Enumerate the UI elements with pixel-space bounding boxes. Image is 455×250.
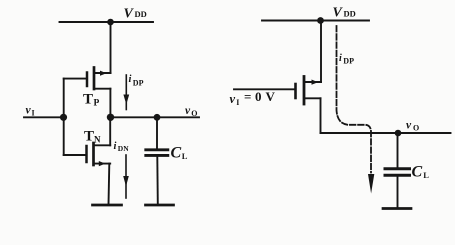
bottom plate (385, 174, 410, 177)
svg-text:=: = (244, 89, 251, 104)
svg-text:V: V (333, 6, 344, 21)
wire VDD rail (right circuit) (262, 20, 369, 22)
wire input line v_I (left) (24, 116, 64, 118)
wire output node to NMOS drain (109, 117, 111, 145)
svg-text:P: P (94, 99, 100, 109)
bottom plate (146, 154, 168, 157)
svg-text:i: i (129, 74, 132, 85)
drain lead (94, 144, 111, 146)
svg-text:T: T (84, 129, 94, 145)
capacitor C_L (left circuit) (146, 117, 168, 204)
label C_L (right) (412, 164, 430, 181)
ground (right, capacitor) (383, 207, 411, 210)
wire VDD rail (left circuit) (60, 21, 154, 23)
label T_N (84, 129, 101, 145)
svg-text:DP: DP (343, 57, 354, 66)
wire dashed current path i_DP (right) (337, 26, 372, 173)
svg-text:O: O (413, 123, 419, 132)
wire output line v_O (right) (321, 132, 451, 134)
svg-text:v: v (185, 105, 191, 117)
svg-text:C: C (171, 145, 182, 162)
label V_DD (right circuit) (333, 6, 356, 21)
node VDD junction dot (right circuit) (317, 17, 324, 24)
svg-text:V: V (124, 7, 135, 22)
gate plate (85, 146, 88, 162)
svg-text:N: N (94, 135, 101, 145)
svg-text:v: v (230, 92, 236, 106)
label i_DN (left) (114, 141, 130, 153)
source arrowhead (312, 80, 319, 85)
source lead (94, 163, 111, 165)
wire PMOS drain to output node (left) (109, 89, 111, 118)
top lead (156, 117, 158, 148)
label T_P (83, 92, 100, 109)
source arrowhead (99, 161, 106, 166)
node capacitor junction dot (left) (154, 114, 161, 121)
svg-text:C: C (412, 164, 423, 181)
svg-text:i: i (339, 53, 342, 64)
svg-text:i: i (114, 141, 117, 152)
bottom lead (156, 157, 159, 205)
current arrow i_DN (left) (123, 155, 129, 198)
ground (left, capacitor) (146, 204, 174, 207)
svg-text:O: O (191, 109, 197, 118)
channel line (93, 68, 96, 90)
drain lead (94, 88, 110, 90)
channel line (303, 77, 306, 105)
top lead (397, 133, 399, 167)
svg-text:I: I (32, 109, 35, 118)
node output junction dot (left) (107, 114, 114, 121)
wire PMOS gate lead (64, 78, 87, 80)
svg-text:v: v (406, 119, 412, 131)
label C_L (left) (171, 145, 188, 162)
gate plate (294, 84, 297, 98)
gate plate (86, 73, 89, 87)
label v_O (left) (185, 105, 198, 118)
wire output line to v_O (left) (111, 116, 200, 118)
wire gate stem (left, connects both gates) (63, 79, 65, 155)
svg-text:DD: DD (344, 9, 356, 19)
top plate (385, 167, 410, 170)
source arrowhead (100, 71, 107, 76)
wire PMOS drain to output line (right) (320, 98, 322, 133)
node output junction dot (right) (395, 130, 402, 137)
label V_DD (left circuit) (124, 7, 147, 22)
top plate (146, 148, 168, 151)
svg-text:DN: DN (118, 144, 129, 153)
svg-text:I: I (236, 98, 239, 107)
svg-text:T: T (83, 92, 93, 108)
node VDD junction dot (left circuit) (107, 19, 114, 26)
label v_I (26, 105, 35, 118)
bottom lead (397, 177, 399, 207)
wire NMOS source to ground (108, 164, 111, 205)
arrowhead of dashed current path (368, 174, 374, 194)
label i_DP (right) (339, 53, 354, 66)
current arrow i_DP (left) (123, 75, 129, 110)
svg-text:L: L (182, 151, 188, 161)
transistor Q T_P (PMOS, left circuit) (87, 68, 111, 90)
svg-text:DD: DD (135, 9, 147, 19)
svg-text:DP: DP (133, 79, 144, 88)
svg-text:L: L (423, 170, 429, 180)
transistor Q (PMOS, right circuit) (234, 77, 321, 105)
label v_I = 0 V (right) (230, 89, 276, 107)
channel line (92, 143, 95, 165)
ground (left, NMOS source) (93, 204, 122, 207)
wire VDD to PMOS source (right) (320, 21, 322, 83)
svg-text:V: V (266, 89, 276, 104)
transistor Q T_N (NMOS, left circuit) (64, 143, 110, 166)
gate lead (64, 154, 87, 156)
drain lead (304, 97, 321, 99)
svg-text:0: 0 (255, 89, 262, 104)
wire VDD to PMOS source (left) (110, 22, 112, 73)
source lead (94, 72, 111, 74)
label v_O (right) (406, 119, 419, 132)
source lead (304, 81, 321, 83)
label i_DP (left) (129, 74, 144, 88)
capacitor C_L (right circuit) (385, 133, 410, 207)
node input junction dot (60, 114, 67, 121)
gate lead (234, 88, 296, 90)
